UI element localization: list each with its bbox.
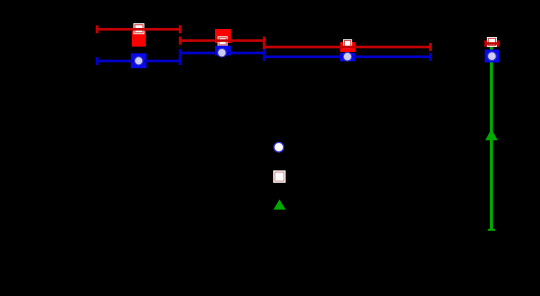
blue box bin3 (340, 53, 355, 61)
blue error bar bin3 (264, 56, 430, 59)
red open-square marker bin1 (133, 23, 144, 34)
red caps at edge x=264 (263, 37, 266, 45)
green exclusion arrow (vertical line, up arrowhead, bottom cap) (485, 44, 498, 231)
green bottom cap (488, 229, 495, 231)
red caps bin4 (484, 40, 487, 46)
green arrowhead (485, 129, 498, 140)
blue circle marker bin4 (488, 52, 497, 61)
blue box bin2 (215, 46, 231, 56)
red box bin1 (132, 31, 146, 47)
red error bar bin3 (264, 46, 430, 49)
red error bar bin1 (97, 28, 180, 31)
blue cap right edge bin3 (429, 53, 432, 61)
green vertical line (490, 44, 493, 230)
legend marker: open circle (274, 142, 284, 152)
legend marker: open square (273, 170, 285, 182)
red box bin3 (340, 42, 355, 52)
red error bar bin4 (485, 42, 499, 45)
blue caps at edge x=264 (263, 49, 266, 61)
blue caps at edge x=180 (179, 49, 182, 65)
legend marker: green triangle (273, 199, 285, 209)
red error bar bin2 (180, 39, 264, 42)
blue box bin1 (131, 53, 147, 68)
red box bin4 (485, 41, 499, 45)
blue error bar bin2 (180, 52, 264, 55)
blue circle marker bin3 (343, 52, 352, 61)
blue cap left edge bin1 (96, 57, 99, 65)
blue circle marker bin2 (218, 48, 227, 57)
red cap left edge bin1 (96, 25, 99, 33)
red open-square marker bin3 (343, 39, 352, 48)
blue error bar bin1 (97, 60, 180, 63)
red open-square marker bin4 (487, 37, 497, 47)
red open-square marker bin2 (218, 36, 228, 46)
red caps at edge x=180 (179, 25, 182, 33)
red cap right edge bin3 (429, 43, 432, 51)
blue circle marker bin1 (135, 57, 143, 65)
blue box bin4 (485, 50, 499, 63)
red box bin2 (215, 29, 231, 43)
